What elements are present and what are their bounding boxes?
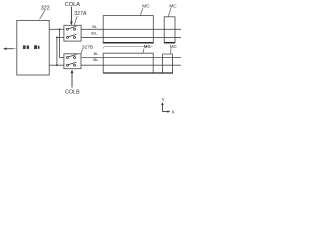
svg-text:MC: MC	[170, 44, 177, 49]
svg-text:BL: BL	[92, 24, 98, 29]
svg-text:COLB: COLB	[65, 90, 80, 96]
svg-text:MC: MC	[142, 3, 150, 8]
svg-text:327A: 327A	[74, 11, 87, 17]
svg-text:X: X	[172, 110, 175, 115]
svg-text:327B: 327B	[82, 44, 93, 50]
svg-text:COLA: COLA	[65, 2, 81, 8]
svg-text:/BL: /BL	[93, 57, 100, 62]
svg-text:MC: MC	[169, 3, 177, 8]
svg-text:/BL: /BL	[91, 31, 98, 36]
svg-text:MC: MC	[144, 44, 152, 49]
svg-text:322: 322	[41, 6, 50, 12]
svg-text:BL: BL	[94, 51, 100, 56]
